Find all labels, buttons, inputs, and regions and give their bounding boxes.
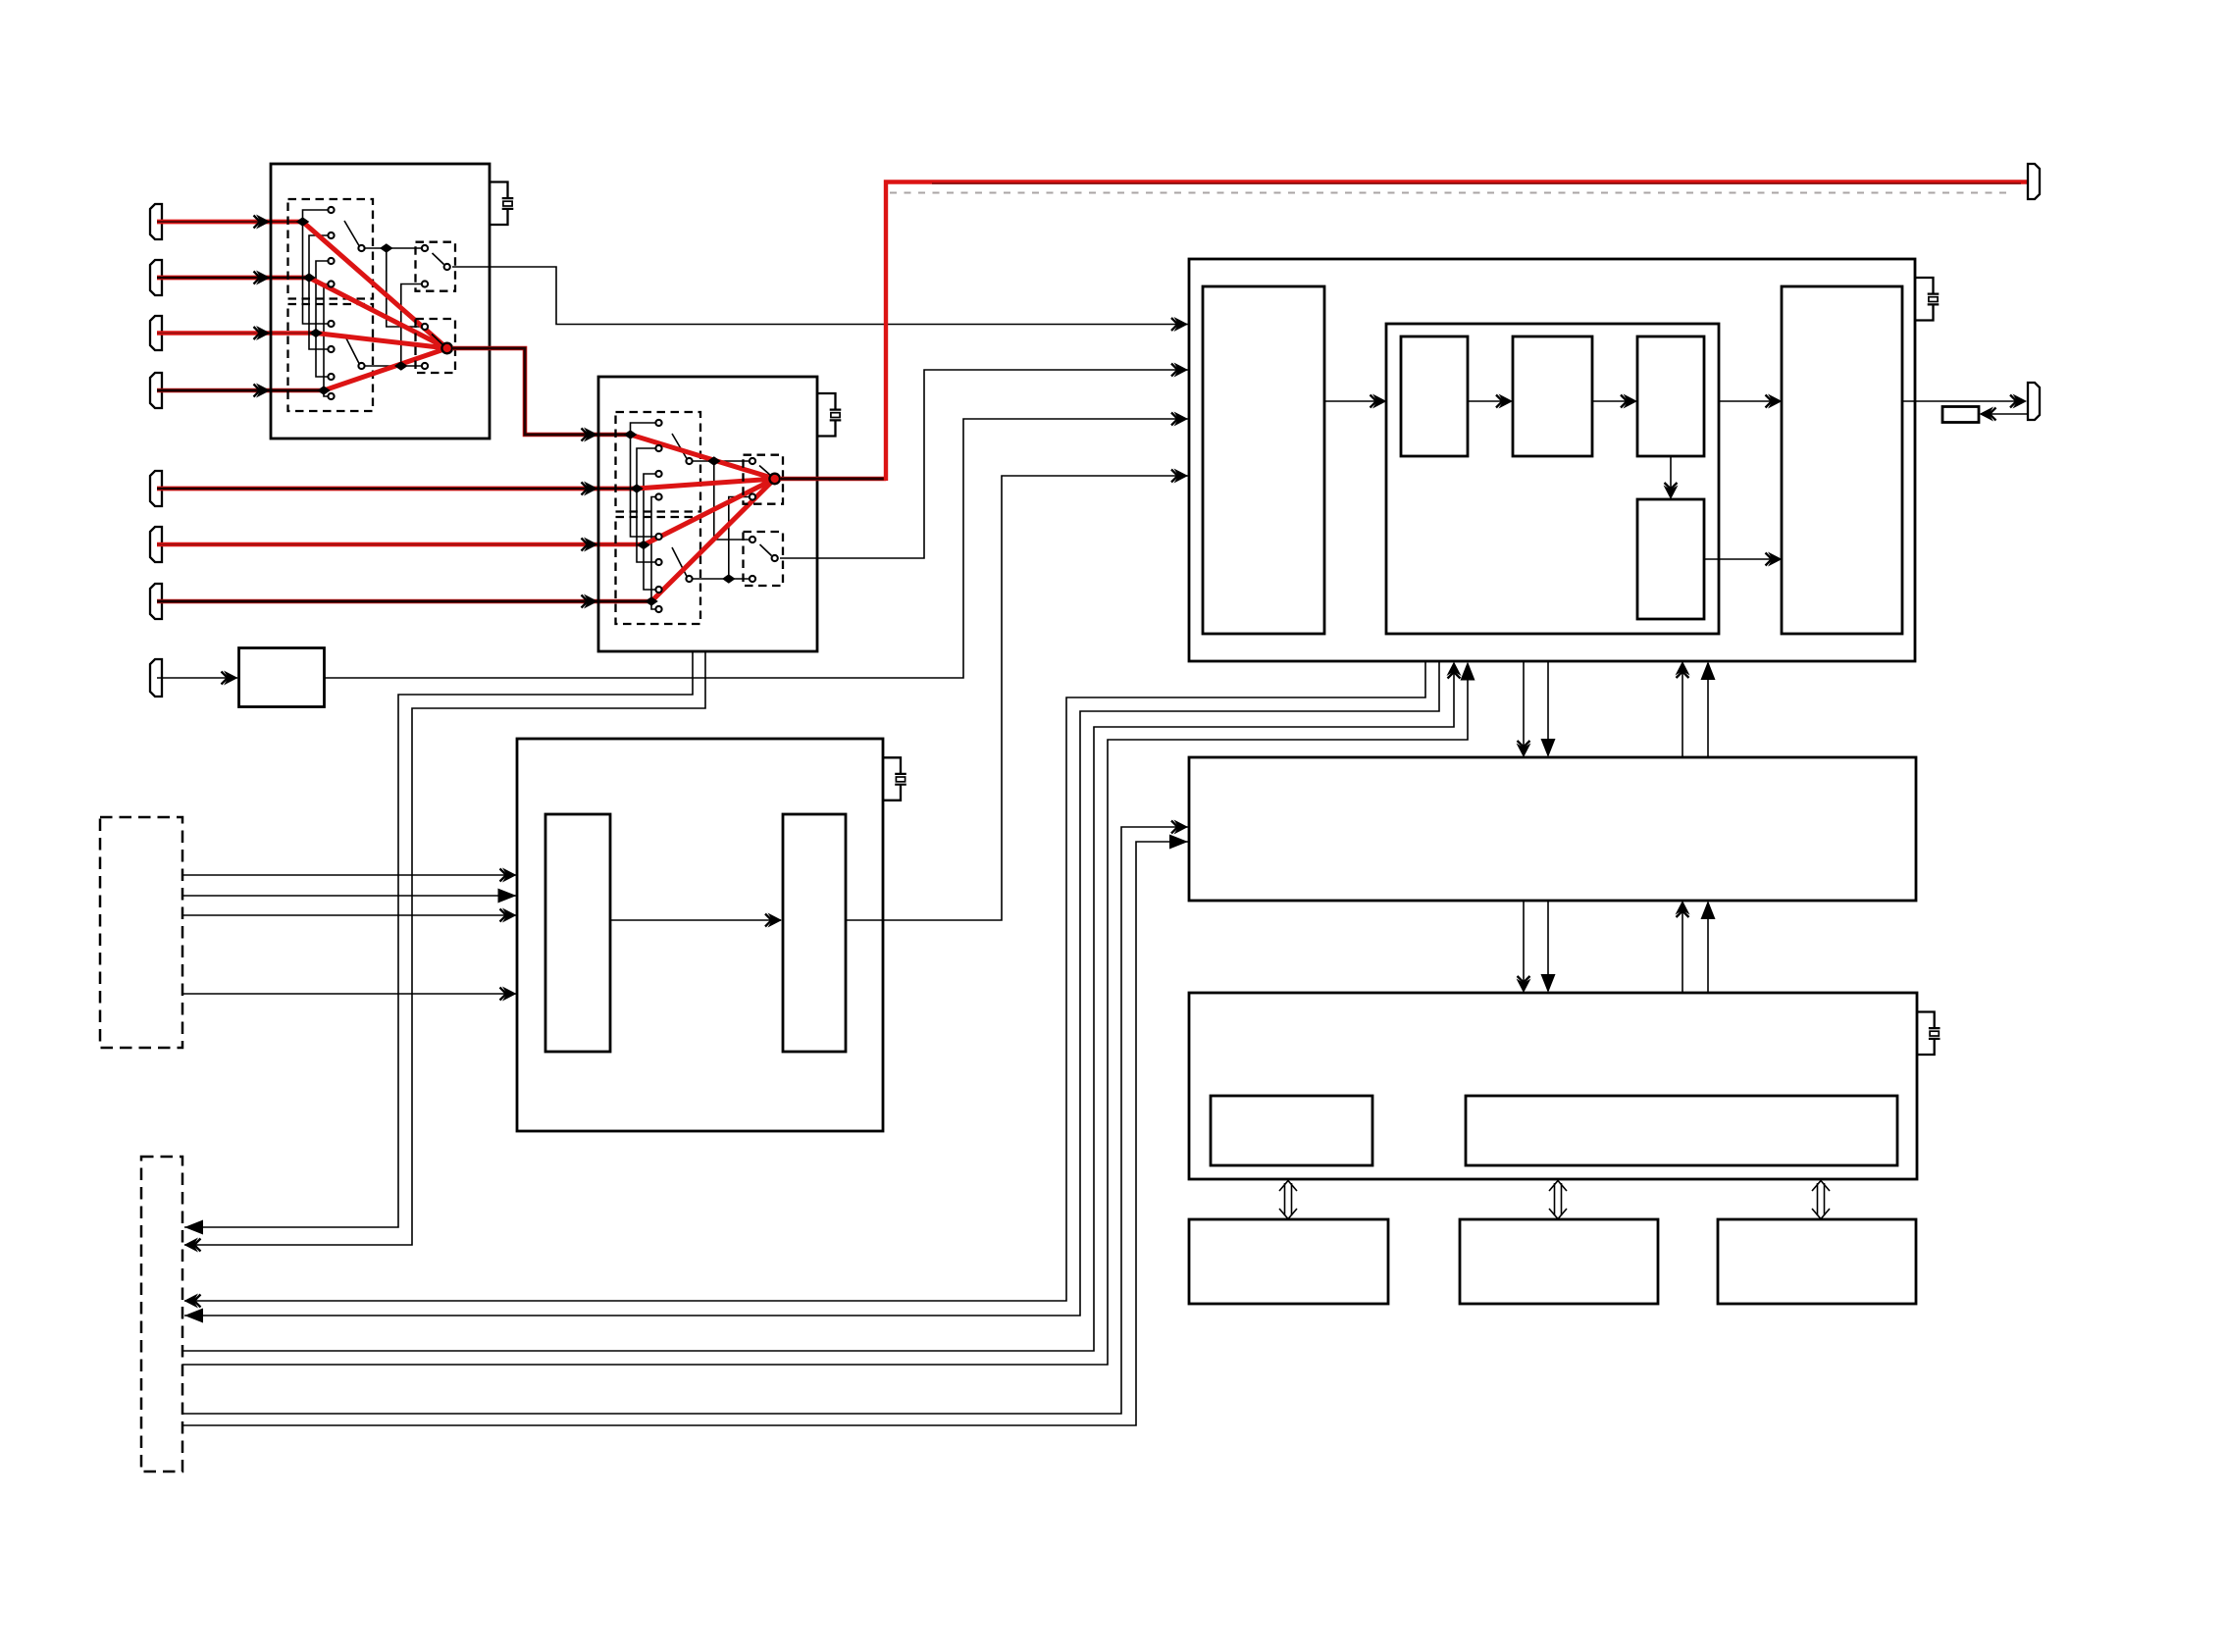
U1 sub-block 3 (1637, 336, 1704, 456)
SW2 crystal X2 (830, 410, 842, 421)
wire CN1 to H-box line 4 (182, 987, 517, 1002)
wire U1 sub2 to sub3 (1592, 394, 1637, 409)
wire J5 to selector SW2 (dark red) (157, 487, 637, 491)
SW2 input group dashed frame B (616, 517, 701, 624)
box B sub-block left (1211, 1096, 1372, 1165)
connector J9 (video output, top right) (2028, 164, 2040, 199)
arrowhead into SW2 input 1 (582, 428, 598, 442)
wire J2 to selector SW1 (dark red) (157, 276, 307, 281)
SW1 crystal X1 bracket (490, 182, 508, 226)
arrowhead into main IC input 3 (1171, 412, 1188, 427)
arrowhead into main IC input 1 (1171, 317, 1188, 332)
wire U1 sub1 to sub2 (1468, 394, 1513, 409)
arrowhead into SW2 input 3 (582, 538, 598, 552)
H-box DAC block (783, 814, 846, 1052)
SW1 switch D fixed contacts (422, 324, 428, 369)
memory chip block M2 (1460, 1219, 1658, 1304)
SW2 switch D fixed contacts (750, 537, 755, 582)
SW2 output switch dashed box D (744, 532, 784, 586)
SW2 input junction diamond d2 (630, 484, 644, 493)
wire SW2 aux out to main IC input 2 (780, 370, 1188, 558)
wire CN1 to H-box line 2 (thick) (182, 889, 517, 903)
arrowhead into buffer block (222, 671, 238, 686)
system controller block (wide box B) (1189, 993, 1917, 1179)
arrowhead into SW2 input 4 (582, 594, 598, 609)
arrowhead into SW1 input 1 (254, 215, 271, 230)
H-box crystal X4 (895, 774, 906, 785)
bidirectional bus B to M3 (1812, 1181, 1830, 1219)
wire SW1 aux out to main IC input 1 (452, 267, 1188, 325)
wire CN1 to H-box line 1 (182, 868, 517, 883)
SW1 switch arm B wiring to output contacts (365, 284, 422, 367)
U1 crystal X3 bracket (1915, 278, 1934, 321)
arrowhead into main IC input 4 (1171, 469, 1188, 484)
SW2 switch arm B wiring to output contacts (693, 497, 750, 580)
SW2 input junction diamond d1 (624, 430, 638, 439)
wire U1 sub3 down to sub4 (1664, 456, 1679, 499)
arrowhead into SW1 input 3 (254, 326, 271, 340)
SW1 contact circles column B (328, 321, 334, 399)
audio DSP block (H-box) (517, 739, 883, 1131)
arrowhead into main IC input 2 (1171, 363, 1188, 378)
return wire J10 to termination block (1980, 407, 2029, 422)
SW2 red selected path fan (631, 435, 775, 601)
bus box B up to box A line 2 (1701, 901, 1716, 993)
bus U1 to CN2 line 2 (184, 661, 1439, 1323)
connector J4 (AV input 4) (150, 373, 162, 408)
SW1 moving contact B (358, 363, 364, 369)
wire J4 to selector SW1 (very dark red) (157, 388, 322, 392)
SW2 switch D arm (760, 544, 772, 556)
H-box crystal X4 bracket (883, 757, 901, 800)
control wire SW2 pin1 to CN2 (184, 651, 693, 1235)
box B crystal X5 bracket (1917, 1012, 1935, 1056)
arrowhead into SW1 input 2 (254, 271, 271, 285)
bus U1 to CN2 (thick) (184, 661, 1426, 1309)
bus CN2 to box A line 1 (thick) (182, 820, 1188, 1415)
red riser and top rail to monitor connector (886, 182, 2027, 482)
SW2 moving contact A (686, 458, 692, 464)
SW1 input junction diamond d1 (296, 217, 310, 227)
SW2 input junction diamond d4 (645, 596, 658, 606)
selector SW2 box (598, 377, 817, 651)
memory chip block M1 (1189, 1219, 1388, 1304)
wire buffer block to main IC input 3 (325, 419, 1188, 678)
connector J8 (control input) (150, 659, 162, 697)
wire SW1 video out to SW2 (dark red) (452, 348, 629, 435)
audio input connector CN1 (dashed) (100, 817, 182, 1048)
bus U1 down to box A line 1 (1517, 661, 1531, 757)
SW1 crystal X1 (502, 198, 514, 209)
bus box B up to box A line 1 (1676, 901, 1690, 993)
U1 processing container block (1386, 324, 1719, 634)
arrowhead into SW2 input 2 (582, 482, 598, 496)
SW1 input junction diamond d3 (309, 329, 323, 338)
SW1 input group dashed frame B (288, 304, 374, 411)
memory chip block M3 (1718, 1219, 1916, 1304)
wire DAC out to main IC input 4 (846, 476, 1188, 920)
faint printing artifact under video rail (890, 191, 2007, 193)
bus U1 down to box A line 2 (1541, 661, 1556, 757)
SW1 junction diamond contact B feed (394, 361, 408, 371)
wire J7 to selector SW2 (very dark red) (157, 599, 651, 603)
SW2 output switch dashed box C (744, 455, 784, 504)
SW1 switch C fixed contacts (422, 245, 428, 287)
bus box A down to box B line 1 (1517, 901, 1531, 993)
wire ADC to DAC (610, 913, 782, 928)
selector SW1 box (271, 164, 490, 439)
control wire SW2 pin2 to CN2 (thick) (184, 651, 706, 1253)
SW2 crystal X2 bracket (817, 393, 836, 437)
connector J10 (RF/video out, right) (2028, 383, 2040, 420)
wire U1 sub4 to output stage (1704, 552, 1783, 567)
SW2 switch C arm (759, 466, 771, 477)
connector J1 (AV input 1) (150, 204, 162, 239)
H-box ADC block (545, 814, 610, 1052)
connector J2 (AV input 2) (150, 260, 162, 295)
connector J6 (AV input 6) (150, 527, 162, 562)
SW1 input junction diamond d2 (302, 273, 316, 283)
SW2 contact circles column A (655, 420, 661, 500)
SW1 input group dashed frame A (288, 199, 374, 299)
box B sub-block right (wide) (1466, 1096, 1897, 1165)
wire U1 video output to connector J10 (1902, 394, 2027, 409)
wire J6 to selector SW2 (bright red) (157, 542, 644, 547)
buffer block (small box) (239, 648, 325, 707)
arrowhead into SW1 input 4 (254, 384, 271, 398)
SW1 switch arm A (344, 221, 359, 246)
U1 sub-block 2 (1513, 336, 1592, 456)
bus CN2 to U1 line 3 (thick) (182, 662, 1462, 1352)
bus CN2 to box A line 2 (182, 835, 1188, 1426)
wire U1 container to output stage (1719, 394, 1783, 409)
U1 output stage block (1782, 286, 1902, 634)
bus box A up to U1 line 1 (1676, 661, 1690, 757)
SW1 switch arm B (344, 335, 359, 364)
control connector CN2 (dashed, bottom left) (141, 1157, 182, 1471)
box B crystal X5 (1929, 1028, 1940, 1039)
SW2 switch arm A (672, 434, 687, 459)
SW1 output switch dashed box C (416, 242, 456, 291)
SW1 red selected path fan (303, 222, 447, 390)
SW2 junction diamond contact A feed (707, 456, 721, 466)
SW2 input junction diamond d3 (637, 541, 650, 550)
main video processor IC U1 (1189, 259, 1915, 661)
U1 input interface block (1203, 286, 1324, 634)
SW1 switch D arm (432, 335, 443, 346)
wire J1 to selector SW1 (red) (157, 220, 300, 225)
wire U1 interface to container (1324, 394, 1387, 409)
wire J3 to selector SW1 (bright red) (157, 331, 314, 336)
memory controller block (wide box A) (1189, 757, 1916, 901)
SW1 input junction diamond d4 (317, 386, 331, 395)
bus box A up to U1 line 2 (1701, 661, 1716, 757)
SW1 switch arm A wiring to output contacts (365, 248, 422, 327)
SW1 switch C arm (433, 253, 444, 265)
SW2 switch D moving contact (772, 555, 778, 561)
SW1 output switch dashed box D (416, 319, 456, 373)
bus CN2 to U1 line 4 (182, 662, 1475, 1366)
bus box A down to box B line 2 (1541, 901, 1556, 993)
SW2 switch arm A wiring to output contacts (693, 461, 750, 540)
SW2 red output node (769, 474, 780, 485)
SW2 crossbar wiring (631, 423, 656, 609)
SW2 input group dashed frame A (616, 412, 701, 512)
U1 sub-block 1 (1401, 336, 1468, 456)
bidirectional bus B to M2 (1549, 1181, 1567, 1219)
SW1 junction diamond contact A feed (380, 243, 393, 253)
connector J3 (AV input 3) (150, 316, 162, 350)
SW2 switch arm B (672, 547, 687, 577)
SW1 moving contact A (358, 245, 364, 251)
SW1 switch C moving contact (444, 264, 450, 270)
termination block (1942, 407, 1979, 423)
connector J5 (AV input 5) (150, 471, 162, 506)
SW2 contact circles column B (655, 534, 661, 612)
wire CN1 to H-box line 3 (182, 908, 517, 923)
SW2 switch C fixed contacts (750, 458, 755, 500)
U1 sub-block 4 (1637, 499, 1704, 619)
SW1 red output node (441, 343, 452, 354)
U1 crystal X3 (1928, 294, 1940, 305)
bidirectional bus B to M1 (1279, 1181, 1297, 1219)
SW2 moving contact B (686, 576, 692, 582)
SW2 junction diamond contact B feed (722, 574, 736, 584)
wire J8 to buffer block (157, 677, 237, 679)
SW1 crossbar wiring (303, 210, 329, 396)
SW1 contact circles column A (328, 207, 334, 287)
wire SW2 video out (dark red) to riser (780, 477, 886, 482)
connector J7 (AV input 7) (150, 584, 162, 619)
